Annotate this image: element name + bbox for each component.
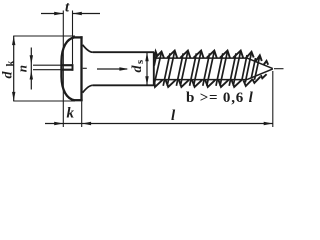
extension line x=72.5 (t right, slot bottom): [72, 11, 74, 65]
extension line below head face: [81, 102, 83, 128]
dimension t: dim line left tail: [41, 13, 63, 15]
thread teeth bottom: [154, 74, 266, 87]
slot extension line bottom: [33, 69, 61, 71]
tip center line stub: [274, 68, 284, 70]
dimension d_k: dim line: [13, 36, 15, 101]
dimension d_k: top extension line: [13, 35, 75, 37]
dimension d_s: dim line: [146, 52, 148, 85]
dimension d_s: top arrow: [145, 52, 148, 61]
svg-text:k: k: [67, 106, 75, 122]
slot bottom line: [61, 69, 73, 71]
dimension n: upper arrow: [30, 55, 33, 64]
dimension t: right arrow: [73, 12, 82, 15]
thread taper bottom: [247, 69, 273, 80]
slot top line: [61, 64, 73, 66]
dimension d_k: top arrow: [12, 36, 15, 45]
dimension d_k: bottom arrow: [12, 92, 15, 101]
dimension n: label: [14, 65, 29, 72]
thread helix flank lines: [154, 51, 260, 86]
slot bottom wall: [72, 64, 74, 71]
dimension d_s: bottom arrow: [145, 76, 148, 85]
thread start edge: [153, 52, 155, 85]
dimension n: dim line: [30, 48, 32, 90]
slot extension line top: [33, 64, 61, 66]
head top edge: [75, 36, 83, 38]
dimension t: dim line right tail: [73, 13, 100, 15]
thread teeth top: [154, 51, 268, 65]
svg-text:n: n: [14, 65, 29, 72]
shank bottom line: [93, 84, 154, 86]
head bottom edge: [75, 99, 83, 101]
dimension l: left arrow: [82, 122, 91, 125]
head right face: [80, 36, 82, 101]
extension line at screw tip: [272, 71, 274, 127]
fillet under head top: [83, 45, 93, 52]
dimension k/l: shared dim line: [45, 123, 273, 125]
center line arrow shaft: [97, 68, 127, 70]
shank top line: [93, 51, 154, 53]
svg-text:d: d: [130, 65, 145, 73]
svg-text:b >= 0,6 l: b >= 0,6 l: [186, 90, 254, 106]
thread core bottom line: [154, 79, 247, 81]
dimension k: left outside arrow: [54, 122, 63, 125]
fillet under head bottom: [83, 85, 93, 92]
head dome arc: [61, 37, 74, 100]
dimension d_k: bottom extension line: [13, 100, 75, 102]
dimension l: right arrow: [264, 122, 273, 125]
svg-text:s: s: [135, 60, 146, 64]
dimension t: left arrow: [54, 12, 63, 15]
center line arrowhead: [119, 67, 128, 70]
thread core top line: [154, 57, 247, 59]
dimension n: lower arrow: [30, 70, 33, 79]
thread taper top: [247, 58, 273, 69]
extension line x=63.3 (t left / k left): [62, 11, 64, 128]
dimension d_s: label: [130, 60, 146, 73]
dimension d_k: label: [0, 61, 16, 79]
svg-text:d: d: [0, 71, 15, 79]
center line stub at head: [83, 67, 87, 69]
